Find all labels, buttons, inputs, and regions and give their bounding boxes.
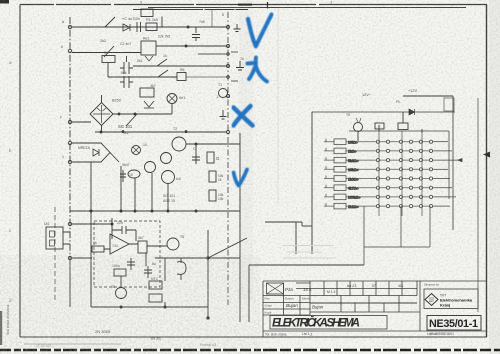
main bus lower solid xyxy=(69,258,71,307)
right long wire xyxy=(477,98,479,312)
dashed wire left xyxy=(54,207,56,302)
junction T2 out xyxy=(195,143,197,145)
drop from top rail 1 xyxy=(161,17,163,28)
resistor R13 xyxy=(114,269,126,276)
matrix right join xyxy=(448,131,450,199)
blue lambda mark xyxy=(248,58,268,82)
bridge rectifier GR1 xyxy=(90,103,113,126)
scan streak lines xyxy=(282,246,336,259)
MAIN SCHEMATIC GROUP xyxy=(46,2,478,322)
junction xyxy=(111,223,113,225)
wire xyxy=(63,232,70,244)
wire row7 xyxy=(72,249,110,258)
title divider v-left xyxy=(300,281,310,315)
capacitor C8 xyxy=(112,226,136,234)
diode D2 xyxy=(93,149,99,156)
bridge drop xyxy=(101,126,103,133)
lamp drop xyxy=(171,104,173,115)
title block outline xyxy=(263,281,487,337)
row2b end node xyxy=(227,53,230,56)
frame right line xyxy=(486,5,488,338)
matrix top rail xyxy=(349,130,449,132)
wire row5 long xyxy=(95,131,226,133)
left cell lines xyxy=(263,283,417,315)
connector flag P1 xyxy=(72,143,110,162)
node A xyxy=(68,25,71,28)
wire row4 left drop xyxy=(107,63,109,77)
ground GND0 xyxy=(234,24,241,32)
frame top line xyxy=(20,4,487,6)
junction dots bus2 xyxy=(90,210,92,212)
wire xyxy=(129,244,167,246)
resistor box R0k1 xyxy=(102,56,115,63)
node B xyxy=(68,49,71,52)
wire row4 ext xyxy=(186,76,226,78)
vertical wire xyxy=(207,230,209,318)
top L wire xyxy=(403,95,453,97)
resistor R9 xyxy=(209,171,216,182)
resistor R14 xyxy=(149,281,162,289)
wire mid h xyxy=(112,113,172,115)
wire y222 xyxy=(265,221,302,223)
matrix row 7 xyxy=(324,194,456,200)
resistor R2b diag xyxy=(105,17,115,27)
matrix rows (generated look) xyxy=(324,131,462,265)
transistor T2 xyxy=(172,137,186,151)
node F xyxy=(68,222,71,225)
relay K1 xyxy=(141,41,156,55)
junction xyxy=(207,257,209,259)
capacitor C10 xyxy=(144,266,152,278)
wire row2 xyxy=(72,52,141,54)
capacitor C2 drop xyxy=(192,27,200,41)
stub dash a xyxy=(231,51,238,53)
vertical mid xyxy=(296,222,302,254)
matrix left stub xyxy=(302,225,312,227)
diode D2a xyxy=(144,101,154,107)
stub to C7 xyxy=(195,144,197,152)
transistor T1 xyxy=(219,89,228,98)
blue check V xyxy=(248,15,272,47)
matrix row 8 xyxy=(324,203,450,209)
capacitor C7 xyxy=(192,152,200,164)
wire row1 xyxy=(72,26,226,28)
dashed enclosure xyxy=(94,221,160,287)
wire bus2 xyxy=(70,210,240,212)
matrix drop wire 3 xyxy=(429,206,431,247)
junction row1 xyxy=(187,26,189,28)
matrix bottom link xyxy=(364,246,430,248)
transistor T5 xyxy=(162,171,175,184)
resistor R3 diag xyxy=(157,59,167,66)
transistor T3 xyxy=(161,153,172,164)
lamp L2 xyxy=(132,146,141,155)
node C xyxy=(68,120,71,123)
left edge scan streak xyxy=(0,311,2,345)
matrix column wires xyxy=(379,131,422,216)
wire bridge top xyxy=(101,95,103,103)
right edge arrow xyxy=(483,152,490,158)
matrix outer left xyxy=(311,112,313,254)
resistor R15 xyxy=(149,294,162,302)
row2 end node xyxy=(227,45,230,48)
resistor R16 xyxy=(375,123,384,129)
stub dash b xyxy=(231,80,238,82)
ground GND1 xyxy=(236,61,244,70)
ground GND2 xyxy=(220,110,227,119)
top edge inner line xyxy=(148,7,466,9)
wire row6 xyxy=(72,223,112,225)
box on top rail xyxy=(141,9,153,17)
node D xyxy=(68,141,71,144)
matrix outer top xyxy=(312,111,455,113)
resistor R12 xyxy=(138,241,147,253)
big text box xyxy=(270,316,387,330)
box mid B1 xyxy=(140,88,154,97)
matrix row 2 xyxy=(324,148,452,154)
transistor T6 xyxy=(167,238,179,250)
box row4 end xyxy=(177,73,186,81)
capacitor C6 xyxy=(120,170,126,182)
transistor T7 xyxy=(177,258,186,280)
matrix row 1 xyxy=(324,139,448,145)
paper shading right edge xyxy=(489,0,500,354)
resistor R2 diag xyxy=(104,46,114,57)
column top wires xyxy=(358,112,422,141)
diode under K1 xyxy=(145,56,153,61)
frame top tick xyxy=(267,2,269,9)
resistor R10 xyxy=(209,190,216,201)
logo box xyxy=(424,289,478,309)
wire diagonal xyxy=(110,153,119,163)
wire row3h xyxy=(72,121,91,123)
top-left corner scan blob xyxy=(0,0,9,4)
wire stub row2b xyxy=(198,53,226,55)
wire verticals lower xyxy=(91,253,165,307)
logo mark xyxy=(425,294,438,306)
title divider v-right xyxy=(419,281,421,331)
bottom bus xyxy=(91,306,208,308)
node H xyxy=(226,94,229,97)
blue small check xyxy=(234,170,248,186)
frame left line xyxy=(19,5,21,338)
pot P2 xyxy=(128,170,140,178)
resistor R4 diag xyxy=(158,70,168,77)
mid grid lower lines xyxy=(310,296,420,313)
paper fold faint line xyxy=(277,8,279,205)
wire xyxy=(112,218,136,241)
cap column wire xyxy=(126,56,128,62)
matrix row 6 xyxy=(324,185,452,191)
paper fold shadow band xyxy=(239,0,253,300)
node E xyxy=(68,160,71,163)
capacitor C4 xyxy=(120,76,133,88)
matrix drop wire 2 xyxy=(400,206,402,247)
resistor R1 xyxy=(146,23,157,31)
matrix right tall xyxy=(452,96,454,230)
title block small texts xyxy=(265,283,455,337)
resistor R11 xyxy=(92,246,104,252)
left cell cross box xyxy=(267,283,284,294)
chain line mid xyxy=(227,12,229,305)
node G xyxy=(68,256,71,259)
junction dots bottom xyxy=(120,306,122,308)
main bus (chain line) xyxy=(69,17,71,258)
inner top rail xyxy=(133,9,248,11)
row5 end node xyxy=(227,131,230,134)
wire row4 xyxy=(108,76,177,78)
junction K1 out xyxy=(185,45,187,47)
blue annotation marks xyxy=(234,15,272,186)
bottom edge dashed black line xyxy=(0,349,500,351)
lamp ON1 xyxy=(167,94,177,104)
number box xyxy=(427,316,481,331)
TITLE BLOCK xyxy=(263,281,487,337)
capacitor C9 xyxy=(127,258,135,270)
capacitor C3 xyxy=(120,62,133,74)
wire vertical from flag xyxy=(90,162,92,307)
blue X mark xyxy=(234,106,253,126)
wire row3 xyxy=(133,65,226,67)
matrix row 4 xyxy=(324,166,448,172)
mid grid row line dark xyxy=(310,302,417,304)
resistor R8 xyxy=(207,152,214,163)
logo diamond xyxy=(425,294,438,306)
diode D3 xyxy=(409,109,415,115)
mid cell bank verticals xyxy=(324,281,417,296)
row1 end node xyxy=(227,26,230,29)
transistor T4 xyxy=(145,162,156,173)
matrix row 5 xyxy=(324,176,450,182)
row3 end node xyxy=(227,65,230,68)
bus right vertical xyxy=(239,133,241,322)
frame top dark dash xyxy=(238,4,252,6)
resistor R7 diag xyxy=(126,114,137,126)
transistor T9 xyxy=(354,123,363,132)
transistor T8 xyxy=(116,288,127,299)
drop from top rail 2 xyxy=(211,10,213,28)
left frame smudge line xyxy=(24,343,122,345)
box right of matrix top xyxy=(444,98,454,111)
frame bottom line xyxy=(20,336,487,338)
capacitor C1a xyxy=(137,22,141,32)
wire row8 xyxy=(155,257,240,259)
matrix row3 double arrow xyxy=(458,159,462,162)
diode D1 xyxy=(123,24,130,31)
wire T2 out xyxy=(186,143,240,145)
left device X1 xyxy=(46,227,63,249)
resistor R17 xyxy=(398,123,408,130)
mid cell bank xyxy=(311,288,417,290)
row4 end node xyxy=(227,76,230,79)
wire K1 out xyxy=(156,45,226,47)
op-amp U1 xyxy=(110,234,129,254)
junction dots mid xyxy=(118,113,120,115)
matrix drop wire 1 xyxy=(363,206,365,265)
matrix row 3 xyxy=(324,157,462,163)
TEXT LABELS xyxy=(272,294,478,331)
wire drops center xyxy=(121,166,168,211)
diagonal wire xyxy=(208,238,247,258)
mid link wires xyxy=(249,265,364,322)
